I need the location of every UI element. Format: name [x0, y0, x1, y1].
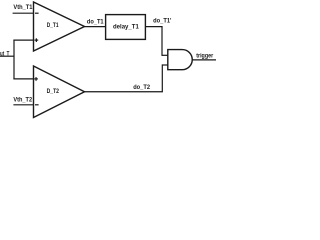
- wire do_T2 from D_T2 output: [85, 91, 163, 93]
- wire do_T1 from D_T1 output to delay_T1: [85, 26, 106, 28]
- wire out_T vertical branch: [13, 40, 15, 80]
- svg-text:Vth_T1: Vth_T1: [13, 4, 33, 11]
- wire out_T from left edge: [0, 55, 14, 57]
- D_T1 non-inverting input mark '+': [35, 38, 39, 42]
- D_T2 inverting input mark '-': [35, 104, 39, 106]
- wire out_T to D_T1 non-inverting input: [13, 39, 33, 41]
- svg-text:Vth_T2: Vth_T2: [13, 96, 32, 103]
- wire out_T to D_T2 non-inverting input: [13, 78, 33, 80]
- wire do_T2 vertical rise: [161, 64, 163, 91]
- wire do_T2 stub to AND gate bottom input: [162, 64, 168, 66]
- wire do_T1' horizontal from delay_T1 output: [146, 26, 163, 28]
- svg-text:do_T1: do_T1: [87, 19, 104, 26]
- svg-text:D_T1: D_T1: [47, 22, 59, 29]
- wire do_T1' vertical drop: [161, 27, 163, 56]
- svg-text:do_T2: do_T2: [133, 84, 150, 91]
- comparator D_T2: [34, 66, 85, 118]
- svg-text:trigger: trigger: [196, 52, 213, 59]
- D_T2 non-inverting input mark '+': [34, 77, 38, 81]
- wire do_T1' stub to AND gate top input: [162, 54, 168, 56]
- D_T1 inverting input mark '-': [35, 12, 39, 14]
- svg-text:D_T2: D_T2: [47, 88, 60, 95]
- delay block delay_T1: [106, 15, 146, 40]
- svg-text:delay_T1: delay_T1: [113, 24, 139, 31]
- wire Vth_T1 to D_T1 inverting input: [13, 12, 34, 14]
- svg-text:out_T: out_T: [0, 50, 9, 57]
- AND gate U1: [168, 50, 192, 70]
- svg-text:do_T1': do_T1': [153, 18, 172, 25]
- wire Vth_T2 to D_T2 inverting input: [13, 104, 33, 106]
- comparator D_T1: [34, 2, 85, 51]
- wire trigger output: [192, 59, 216, 61]
